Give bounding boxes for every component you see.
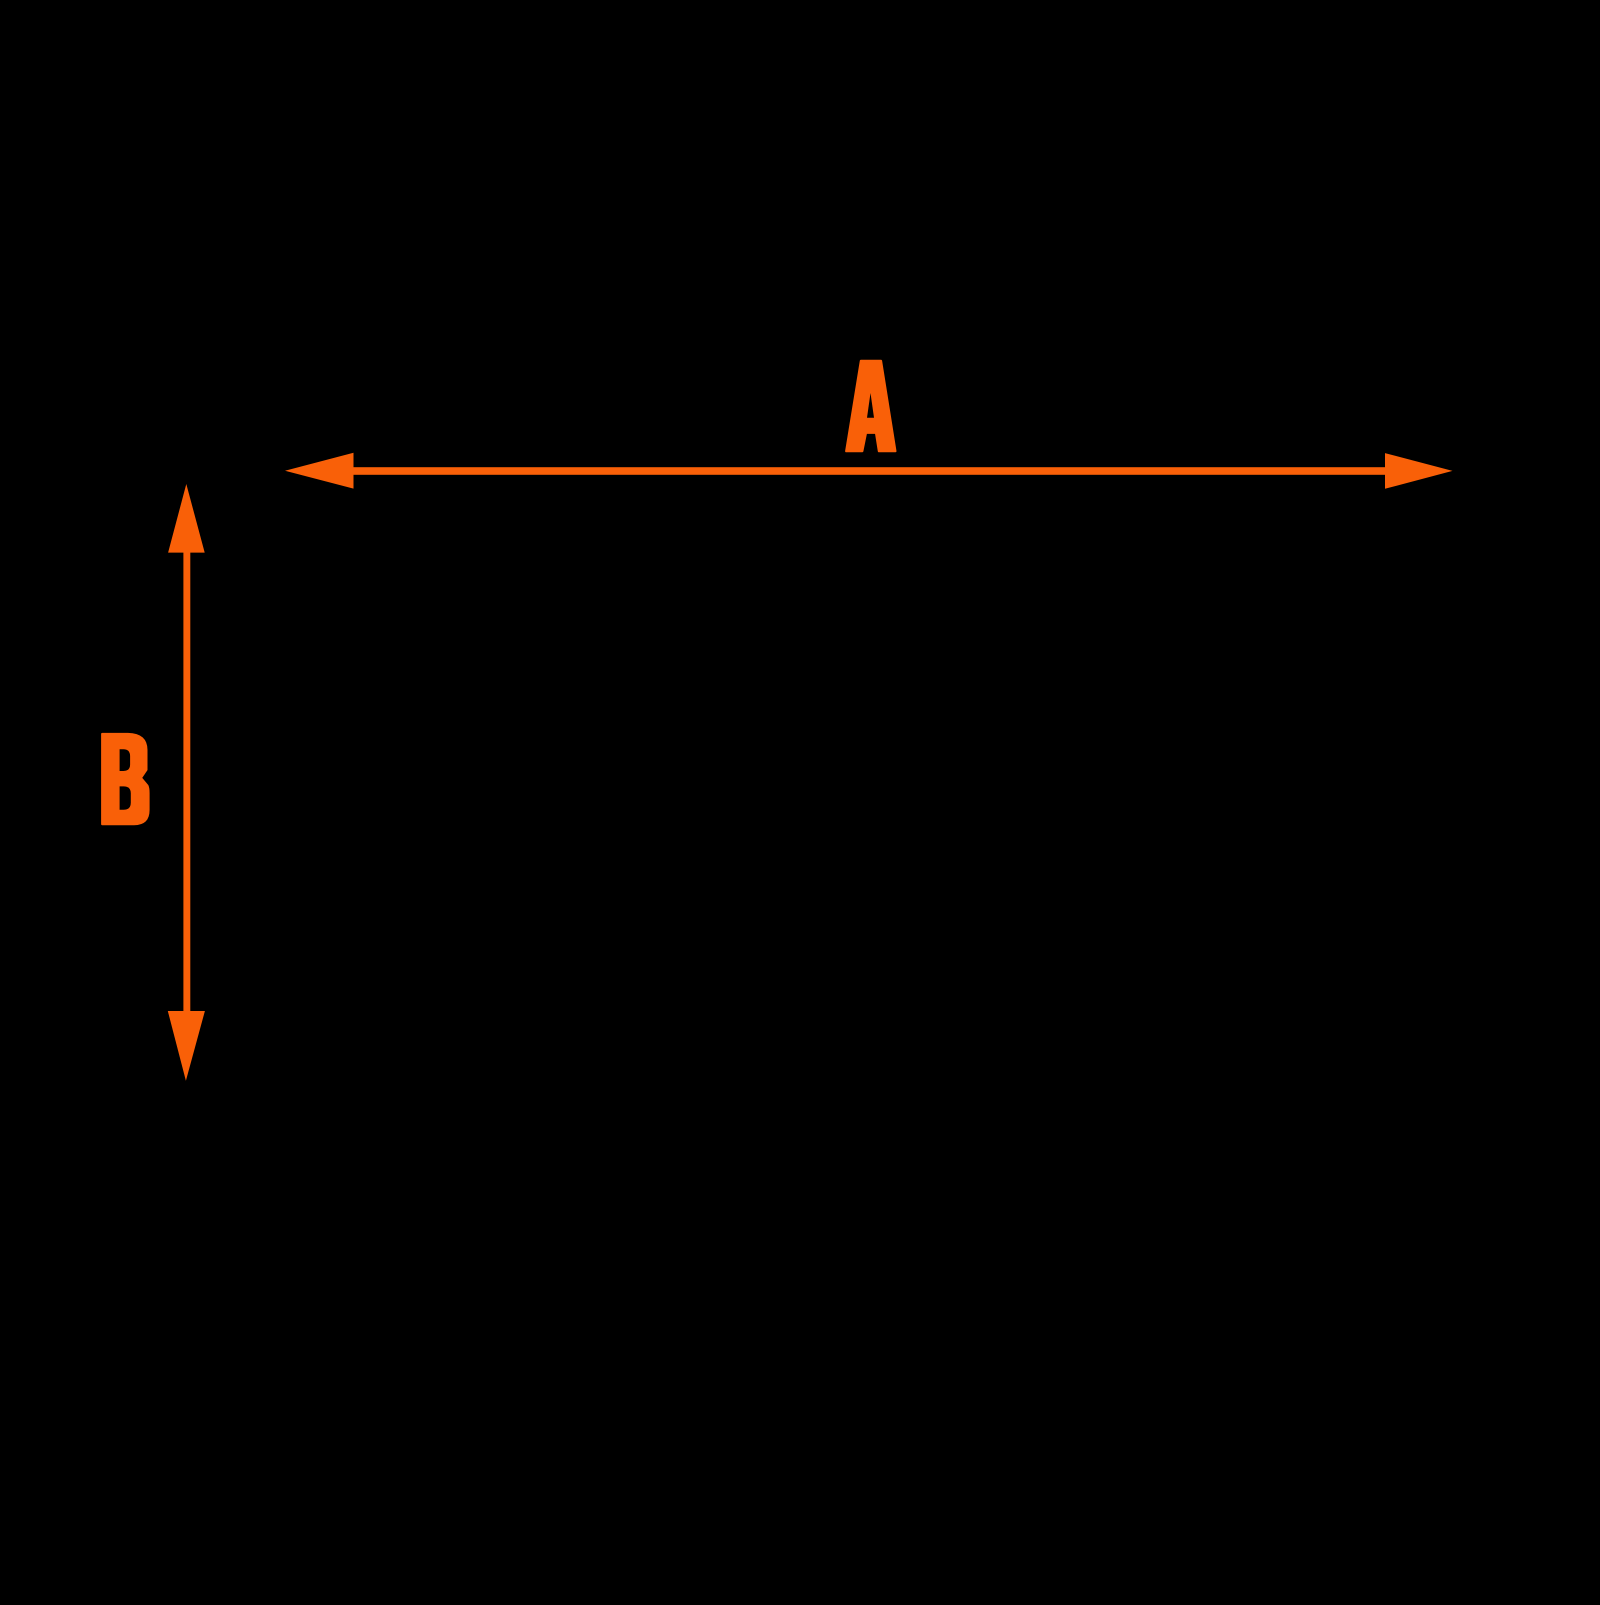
label A <box>846 361 895 451</box>
arrowhead B bottom <box>168 1011 205 1081</box>
arrowhead B top <box>168 484 205 553</box>
arrowhead A right <box>1385 453 1453 489</box>
wire: arrow B shaft <box>183 545 190 1018</box>
dimension arrow B (vertical) <box>168 484 205 1081</box>
arrowhead A left <box>285 453 354 489</box>
dimension arrow A (horizontal) <box>285 453 1453 489</box>
label B <box>102 734 148 824</box>
wire: arrow A shaft <box>340 467 1395 475</box>
